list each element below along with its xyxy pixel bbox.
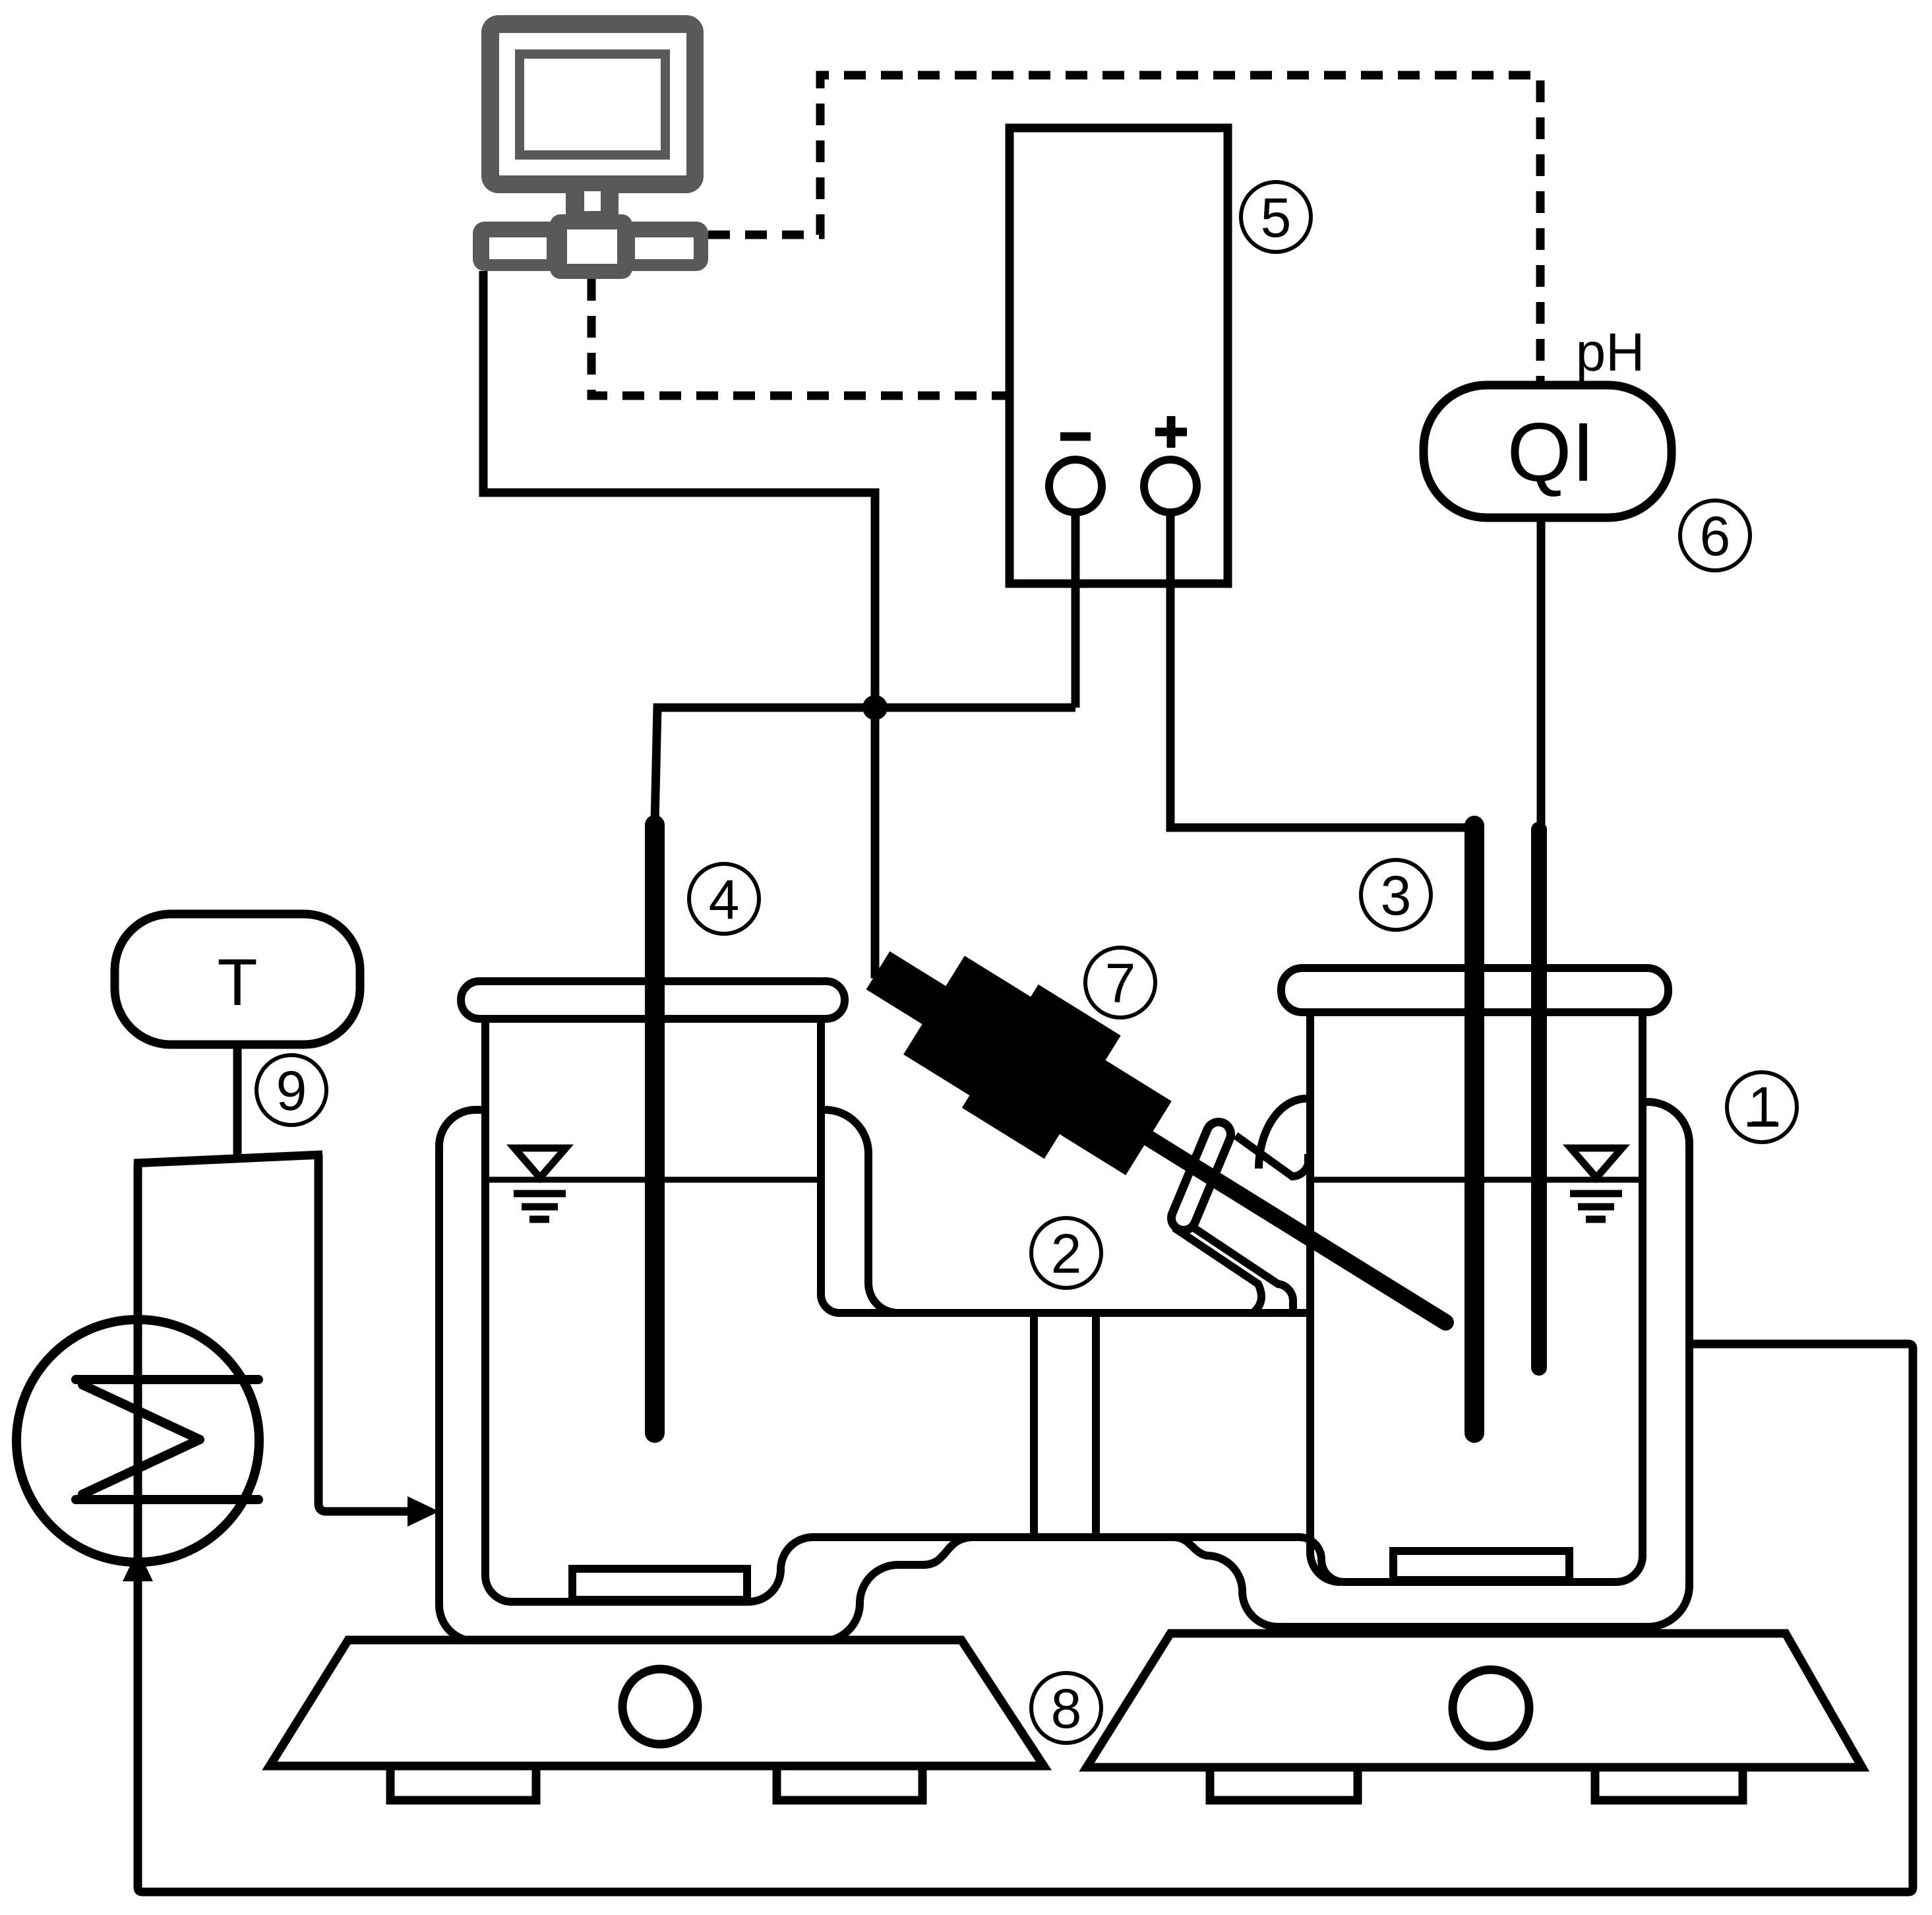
left+right inner beakers and bench platform (continuous glass line) xyxy=(485,1012,1643,1602)
computer PC icon: stand neck xyxy=(566,191,619,221)
minus sign xyxy=(1060,433,1091,441)
plus terminal xyxy=(1144,460,1197,512)
electrode 3 (anode rod) xyxy=(1464,826,1484,1433)
pipe: T to manifold xyxy=(233,1045,242,1161)
left stirrer knob xyxy=(622,1669,698,1744)
svg-text:3: 3 xyxy=(1381,865,1412,927)
left jacket right wall xyxy=(822,1110,898,1313)
middle vessel pedestal xyxy=(1034,1317,1096,1537)
pipe: manifold top slant xyxy=(134,1155,322,1163)
wire: minus terminal to electrode 4 xyxy=(655,512,1075,823)
right water level symbol xyxy=(1570,1148,1622,1219)
right vessel rim xyxy=(1281,968,1668,1012)
right water line xyxy=(1314,1177,1643,1183)
label circle 4 xyxy=(689,864,759,934)
label circle 9 xyxy=(257,1055,326,1125)
dashed signal wire: computer to power supply 5 xyxy=(591,279,1010,396)
flow arrow into left jacket xyxy=(408,1496,439,1527)
pipe: left down through heat exchanger, bottom return line, up right side to jacket outlet xyxy=(138,1163,1913,1892)
probe 7 collar seal xyxy=(1184,1134,1219,1218)
heat exchanger circle xyxy=(16,1320,259,1562)
wire: computer to reference electrode 7 xyxy=(483,271,890,974)
right magnetic stirrer xyxy=(1087,1633,1862,1767)
heat exchanger coil zigzag xyxy=(82,1385,200,1494)
label circle 7 xyxy=(1085,948,1155,1018)
middle vessel slanted spout outer wall xyxy=(1174,1228,1261,1313)
left stirrer feet xyxy=(390,1766,536,1800)
right jacket top-left corner arc xyxy=(1259,1099,1306,1169)
label circle 5 xyxy=(1241,182,1311,252)
svg-text:6: 6 xyxy=(1700,505,1731,567)
pipe: right branch into left vessel jacket xyxy=(318,1155,409,1511)
label circle 2 xyxy=(1031,1218,1101,1288)
label circle 1 xyxy=(1727,1072,1797,1142)
angled port upper wall xyxy=(1236,1136,1308,1176)
svg-text:5: 5 xyxy=(1261,187,1292,249)
right stirrer knob xyxy=(1453,1670,1529,1746)
svg-text:4: 4 xyxy=(709,868,740,930)
flow arrow up into heat exchanger xyxy=(123,1550,153,1581)
heat exchanger coil top line xyxy=(76,1375,258,1384)
left stir bar xyxy=(572,1569,747,1600)
svg-text:T: T xyxy=(217,946,257,1019)
junction dot xyxy=(862,695,888,720)
computer PC icon: hub block xyxy=(550,214,632,279)
right stirrer feet xyxy=(1210,1767,1358,1800)
svg-text:1: 1 xyxy=(1748,1076,1779,1138)
pH sensor rod 6 xyxy=(1531,830,1547,1368)
left magnetic stirrer 8 xyxy=(270,1640,1044,1766)
pH meter QI box 6 xyxy=(1424,385,1672,518)
heat exchanger coil bottom line xyxy=(76,1495,258,1504)
plus sign xyxy=(1155,416,1187,448)
svg-text:8: 8 xyxy=(1051,1678,1082,1740)
left vessel rim xyxy=(461,981,845,1019)
svg-text:7: 7 xyxy=(1105,952,1136,1014)
computer PC icon: base bar with slots xyxy=(473,222,708,271)
left water line xyxy=(489,1177,821,1183)
left beaker right wall into middle vessel xyxy=(821,1019,839,1313)
electrode 4 (cathode rod) xyxy=(645,825,665,1433)
right beaker left wall xyxy=(1310,1012,1340,1582)
svg-text:QI: QI xyxy=(1507,406,1594,499)
thermostat indicator T box 9 xyxy=(115,914,360,1045)
svg-text:2: 2 xyxy=(1051,1223,1082,1285)
right stir bar xyxy=(1393,1551,1569,1580)
left jacket outline xyxy=(439,1110,973,1641)
label circle 6 xyxy=(1680,501,1750,570)
middle vessel spout inner wall (port lower edge) xyxy=(1187,1223,1293,1311)
svg-text:pH: pH xyxy=(1576,322,1645,382)
probe 7 body (rotated group) xyxy=(840,909,1484,1384)
label circle 8 xyxy=(1031,1673,1101,1743)
wire: plus terminal to electrode 3 xyxy=(1170,512,1473,828)
label circle 3 xyxy=(1361,860,1431,930)
computer PC icon: monitor xyxy=(481,15,704,193)
minus terminal xyxy=(1049,460,1102,512)
wire: QI to pH sensor xyxy=(1537,518,1546,824)
power supply box 5 xyxy=(1010,128,1228,584)
svg-text:9: 9 xyxy=(276,1060,307,1122)
dashed signal wire: computer to pH meter QI xyxy=(708,75,1540,381)
right jacket right wall xyxy=(1174,1102,1689,1627)
middle vessel bottom and slanted neck wall xyxy=(838,1309,1309,1317)
left water level symbol xyxy=(514,1148,566,1219)
